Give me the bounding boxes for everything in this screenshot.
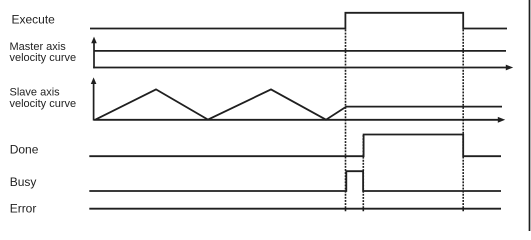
master axis time axis arrow [93, 65, 513, 71]
slave axis time axis arrow [94, 117, 506, 123]
svg-text:Busy: Busy [10, 175, 37, 189]
Execute waveform [90, 13, 507, 29]
svg-text:Error: Error [10, 202, 37, 216]
master axis vertical arrow [91, 37, 97, 69]
Busy waveform [89, 171, 501, 191]
dotted timing line t3 (Execute falling edge) [462, 30, 464, 213]
slave axis vertical arrow [91, 77, 97, 120]
Done waveform [89, 135, 501, 157]
svg-text:Master axis: Master axis [10, 41, 67, 53]
signal label Slave axis velocity curve [10, 87, 77, 110]
slave axis velocity waveform (triangles then constant after sync) [96, 89, 503, 119]
svg-text:Slave axis: Slave axis [10, 87, 61, 99]
Error waveform [89, 208, 501, 210]
svg-text:Done: Done [10, 143, 39, 157]
right page border line [529, 0, 531, 231]
dotted timing line t2 (Done rising edge) [362, 135, 364, 212]
master axis velocity curve line [94, 50, 506, 52]
svg-text:velocity curve: velocity curve [10, 52, 77, 64]
svg-text:Execute: Execute [12, 13, 56, 27]
signal label Master axis velocity curve [10, 41, 77, 64]
dotted timing line t1 (Execute rising edge) [345, 30, 347, 213]
svg-text:velocity curve: velocity curve [10, 98, 77, 110]
